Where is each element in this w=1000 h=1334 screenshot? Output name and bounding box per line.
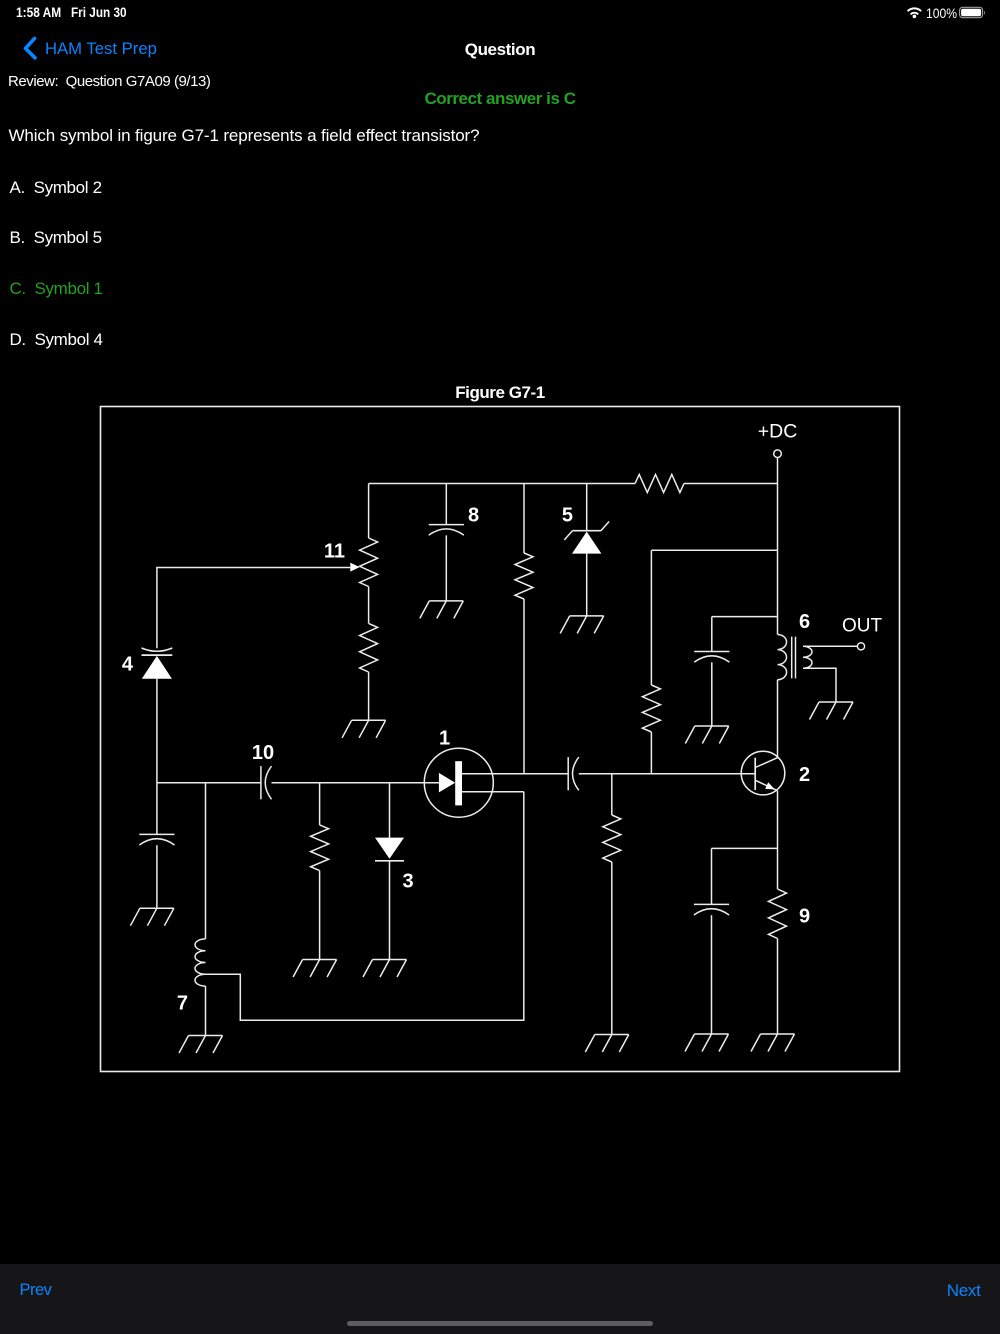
resistor (651 branch, unlabeled) xyxy=(642,550,660,774)
ground under zener 5 xyxy=(560,616,604,634)
wire collector line xyxy=(777,680,779,758)
svg-text:3: 3 xyxy=(403,871,414,893)
figure title xyxy=(0,383,1000,403)
svg-text:1: 1 xyxy=(439,728,450,750)
capacitor 10 xyxy=(252,742,274,799)
wire emitter stub to bypass cap xyxy=(712,847,778,849)
wire stub from +DC line at y616.6 xyxy=(712,616,778,618)
svg-text:2: 2 xyxy=(799,764,810,786)
ground under diode 3 xyxy=(363,960,407,978)
svg-text:+DC: +DC xyxy=(758,421,798,443)
schematic border frame xyxy=(101,407,900,1072)
wire feedback tap from inductor to source line xyxy=(206,792,524,1020)
answers xyxy=(10,178,102,198)
resistor (top rail, unlabeled) xyxy=(635,475,684,493)
wire coupling cap to transistor 2 base xyxy=(579,773,755,775)
capacitor (emitter bypass, unlabeled) xyxy=(694,848,729,1034)
wire FET source to feedback line xyxy=(462,791,524,793)
wire FET drain to coupling cap xyxy=(462,773,568,775)
resistor (gate leak, unlabeled) xyxy=(311,783,329,960)
wire stub from +DC line at y550 xyxy=(651,549,777,551)
wire secondary top to OUT xyxy=(803,645,857,647)
review line xyxy=(8,73,210,90)
resistor (base bias, unlabeled) xyxy=(603,774,621,1035)
status bar right: wifi icon, battery xyxy=(900,0,1000,26)
ground under bypass cap xyxy=(685,1034,729,1052)
ground under base resistor xyxy=(585,1035,629,1053)
wire top rail left segment xyxy=(369,483,635,485)
correct answer xyxy=(0,89,1000,109)
potentiometer 11 xyxy=(324,484,378,721)
svg-text:OUT: OUT xyxy=(842,616,883,637)
ground under transformer secondary xyxy=(810,702,854,720)
svg-text:7: 7 xyxy=(177,993,188,1015)
wire secondary bottom to ground xyxy=(803,668,836,702)
capacitor 8 xyxy=(429,484,479,601)
svg-text:9: 9 xyxy=(799,906,810,928)
transformer 6 secondary winding xyxy=(803,646,812,668)
diode 3 xyxy=(375,783,414,960)
ground under resistor 9 xyxy=(751,1034,795,1052)
resistor 9 xyxy=(769,889,811,1034)
ground under inductor 7 xyxy=(179,1036,223,1054)
transistor 1 (FET symbol) xyxy=(424,728,493,818)
ground under capacitor 8 xyxy=(420,601,464,619)
svg-text:8: 8 xyxy=(468,505,479,527)
wire +DC vertical down to rail and coil xyxy=(777,458,779,635)
ground under left capacitor xyxy=(130,908,174,926)
transistor 2 xyxy=(741,751,810,795)
svg-text:4: 4 xyxy=(122,654,134,676)
svg-text:11: 11 xyxy=(324,541,345,563)
home indicator xyxy=(347,1321,653,1327)
wire top rail right segment xyxy=(684,483,778,485)
question xyxy=(9,126,480,146)
wifi icon xyxy=(908,8,920,13)
svg-text:6: 6 xyxy=(799,611,810,633)
inductor 7 xyxy=(177,783,206,1036)
capacitor (below varactor, unlabeled) xyxy=(139,783,174,909)
transformer 6 core xyxy=(792,637,796,679)
ground under gate resistor xyxy=(293,960,337,978)
battery icon xyxy=(960,7,985,17)
wire gate bus left segment xyxy=(157,782,261,784)
bottom toolbar xyxy=(0,1264,1000,1334)
wire emitter line xyxy=(777,791,779,889)
resistor (rail to drain, unlabeled) xyxy=(515,484,533,774)
svg-text:10: 10 xyxy=(252,742,274,764)
wire varactor top to wiper arrow xyxy=(157,568,351,649)
ground under potentiometer 11 xyxy=(342,720,386,738)
ground under tank capacitor xyxy=(685,726,729,744)
capacitor (coupling, unlabeled) xyxy=(567,757,569,790)
node +DC terminal xyxy=(758,421,798,458)
transformer 6 primary winding xyxy=(778,611,811,680)
svg-text:5: 5 xyxy=(562,505,573,527)
varactor diode 4 xyxy=(122,648,172,783)
zener diode 5 xyxy=(562,484,609,616)
wire gate bus right segment to FET gate xyxy=(272,782,439,784)
status bar left: time and date xyxy=(16,4,61,20)
capacitor (collector tank, unlabeled) xyxy=(694,617,729,726)
nav bar xyxy=(0,30,50,70)
node OUT terminal xyxy=(842,616,883,650)
